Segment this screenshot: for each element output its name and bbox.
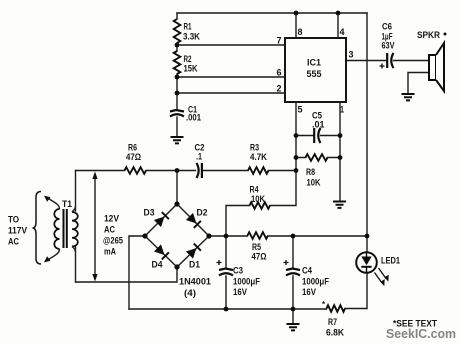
label 1N4001 (4) <box>179 277 211 299</box>
node bridge top vertex <box>174 201 179 206</box>
LED1 <box>356 252 400 273</box>
svg-text:15K: 15K <box>184 64 198 74</box>
node pin8 on top rail <box>294 11 299 16</box>
12V AC measurement arrow <box>92 172 97 282</box>
wire V+ riser right side <box>366 13 368 236</box>
svg-text:SPKR: SPKR <box>417 30 440 40</box>
node R8 right <box>338 155 343 160</box>
svg-text:1000μF: 1000μF <box>302 277 329 287</box>
svg-text:10K: 10K <box>307 178 321 188</box>
wire R4 right leg <box>270 171 296 206</box>
wire secondary bottom column <box>75 246 77 282</box>
svg-text:1: 1 <box>340 105 344 115</box>
svg-text:12V: 12V <box>104 214 120 224</box>
capacitor C6 <box>380 22 396 69</box>
node pin4 on top rail <box>336 11 341 16</box>
node pin2/C1 <box>175 91 180 96</box>
wire R2 to pin2 node segment <box>176 74 178 93</box>
ground under speaker <box>402 94 415 100</box>
svg-text:R4: R4 <box>250 185 260 195</box>
node R3/R4/pin5 junction <box>294 168 299 173</box>
wire R1-R2 node segment <box>176 43 178 51</box>
diode D4 <box>152 244 169 269</box>
svg-text:D2: D2 <box>197 208 208 218</box>
wire pin 3 to C6 <box>346 60 386 62</box>
wire middle row: R3 to junction <box>269 170 297 172</box>
svg-text:4.7K: 4.7K <box>250 152 267 162</box>
wire bridge lower-right edge <box>177 236 209 267</box>
svg-text:LED1: LED1 <box>381 256 400 266</box>
ground under C1 <box>171 137 184 143</box>
node C5 right <box>338 133 343 138</box>
svg-text:R3: R3 <box>250 143 259 153</box>
svg-text:D1: D1 <box>189 260 200 270</box>
diode D3 <box>144 208 169 228</box>
wire bridge upper-right edge <box>177 204 209 236</box>
svg-text:D3: D3 <box>144 208 155 218</box>
svg-text:C3: C3 <box>233 266 243 276</box>
wire secondary bottom lead curve <box>72 246 76 252</box>
wire secondary top column <box>75 171 77 212</box>
core <box>64 209 67 248</box>
diode D2 <box>186 208 208 228</box>
svg-text:IC1: IC1 <box>307 58 321 68</box>
node bridge left vertex <box>142 233 147 238</box>
svg-text:.1: .1 <box>196 152 202 162</box>
capacitor C1 <box>170 105 201 123</box>
svg-text:C6: C6 <box>382 22 392 32</box>
svg-text:R8: R8 <box>306 167 315 177</box>
wire C3 node to R5 <box>226 235 248 237</box>
resistor R6 <box>125 143 147 174</box>
brace for 117V input <box>33 192 42 265</box>
wire pin 7 row <box>177 44 285 46</box>
svg-text:.001: .001 <box>186 113 201 123</box>
svg-text:555: 555 <box>307 69 322 79</box>
primary winding <box>54 209 59 249</box>
wire speaker lower terminal to ground <box>408 73 429 94</box>
node middle row / bridge top column <box>175 168 180 173</box>
svg-text:@265: @265 <box>103 236 123 246</box>
resistor R4 <box>250 185 271 209</box>
node bridge bottom vertex <box>174 264 179 269</box>
resistor R3 <box>248 143 269 174</box>
ground under C4 <box>287 324 300 330</box>
wire pin 1 column <box>339 102 341 201</box>
svg-text:16V: 16V <box>233 287 248 297</box>
svg-text:R1: R1 <box>184 22 192 32</box>
wire pin 6 row <box>177 76 285 78</box>
wire R8 row stubs <box>296 157 340 159</box>
label 12V AC @265 mA <box>103 214 123 257</box>
wire bridge right vertex to C3 node <box>209 235 226 237</box>
svg-text:SeekIC.com: SeekIC.com <box>386 327 456 341</box>
svg-text:D4: D4 <box>152 260 164 270</box>
wire pin 5 column <box>295 102 297 171</box>
wire middle row: xfmr to R6 <box>76 170 125 172</box>
node R2/pin6 <box>175 75 180 80</box>
wire R5 to C4 node <box>268 235 293 237</box>
svg-text:4: 4 <box>340 27 345 37</box>
svg-text:C4: C4 <box>302 266 313 276</box>
resistor R2 <box>174 51 198 74</box>
svg-text:16V: 16V <box>302 287 317 297</box>
resistor R8 <box>306 154 328 187</box>
svg-text:.01: .01 <box>312 120 325 130</box>
svg-text:R6: R6 <box>128 143 137 153</box>
node C3 top <box>224 234 229 239</box>
wire top V+ rail <box>177 12 367 14</box>
wire C5 row right stub <box>321 135 341 137</box>
node C3 bottom <box>224 307 229 312</box>
op IC1 555 <box>285 38 346 102</box>
wire left vertex to left then down to bottom rail <box>129 236 145 309</box>
wire bridge lower-left edge <box>145 236 177 267</box>
wire pin 2 row <box>177 92 285 94</box>
svg-text:117V: 117V <box>8 226 28 236</box>
capacitor C5 <box>312 111 322 144</box>
capacitor C2 <box>195 143 205 179</box>
svg-text:6: 6 <box>277 68 282 78</box>
resistor R5 <box>248 232 269 261</box>
svg-text:47Ω: 47Ω <box>126 152 141 162</box>
svg-text:2: 2 <box>277 84 282 94</box>
node bridge right vertex <box>206 233 211 238</box>
svg-text:R7: R7 <box>328 317 337 327</box>
wire bottom rail <box>129 308 327 310</box>
svg-text:(4): (4) <box>184 288 196 298</box>
node C4 top <box>291 234 296 239</box>
capacitor C3 <box>217 260 261 297</box>
svg-text:3.3K: 3.3K <box>183 32 200 42</box>
speaker SPKR <box>417 30 447 91</box>
svg-text:T1: T1 <box>62 199 72 209</box>
resistor R1 <box>174 19 201 43</box>
svg-text:8: 8 <box>298 27 303 37</box>
wire primary bottom lead with arrow <box>44 249 60 262</box>
svg-text:R2: R2 <box>184 54 192 64</box>
wire C5 row left stub <box>296 135 313 137</box>
wire C4 node to LED node <box>293 235 367 237</box>
svg-text:7: 7 <box>277 36 282 46</box>
svg-text:10K: 10K <box>251 194 265 204</box>
diode D1 <box>186 244 201 270</box>
svg-text:mA: mA <box>104 247 116 257</box>
node C5 left <box>294 133 299 138</box>
wire primary top lead with arrow <box>44 196 60 209</box>
wire pin 4 riser <box>337 13 339 38</box>
wire middle row: R6 to C2 <box>146 170 196 172</box>
wire LED anode lead <box>366 236 368 252</box>
node LED top <box>365 234 370 239</box>
wire C4 ground stem <box>292 309 294 323</box>
wire C4 column <box>292 236 294 309</box>
svg-text:5: 5 <box>298 105 303 115</box>
svg-text:R5: R5 <box>252 242 261 252</box>
capacitor C4 <box>284 260 330 297</box>
node C4 bottom / ground <box>291 307 296 312</box>
svg-text:1N4001: 1N4001 <box>179 277 211 287</box>
wire pin 8 riser <box>295 13 297 38</box>
wire C6 to speaker <box>394 60 430 62</box>
svg-text:AC: AC <box>104 225 115 235</box>
transformer T1 <box>54 199 78 249</box>
node R1/R2/pin7 <box>175 43 180 48</box>
svg-text:6.8K: 6.8K <box>326 328 344 338</box>
wire secondary top lead curve <box>72 206 76 212</box>
resistor R7 <box>322 300 345 338</box>
wire C1 lead <box>176 93 178 109</box>
svg-text:63V: 63V <box>382 41 396 51</box>
svg-text:3: 3 <box>349 50 354 60</box>
svg-text:47Ω: 47Ω <box>252 252 267 262</box>
wire LED cathode to bottom corner <box>345 273 367 309</box>
svg-text:TO: TO <box>8 215 19 225</box>
wire C1 to ground <box>176 117 178 136</box>
svg-text:AC: AC <box>8 237 19 247</box>
label TO 117V AC <box>8 215 28 247</box>
ground under pin 1 <box>333 202 346 208</box>
node R8 left <box>294 155 299 160</box>
wire R4 left leg <box>226 206 250 237</box>
wire C3 column <box>225 236 227 309</box>
wire middle row: C2 to R3 <box>203 170 249 172</box>
wire bridge upper-left edge <box>145 204 177 236</box>
secondary winding <box>72 212 78 246</box>
wire R1 top stub <box>176 13 178 19</box>
wire bridge top column <box>176 171 178 205</box>
LED emission arrows <box>375 268 389 286</box>
svg-text:1000μF: 1000μF <box>233 277 260 287</box>
wire bridge bottom to secondary bottom <box>76 267 178 282</box>
